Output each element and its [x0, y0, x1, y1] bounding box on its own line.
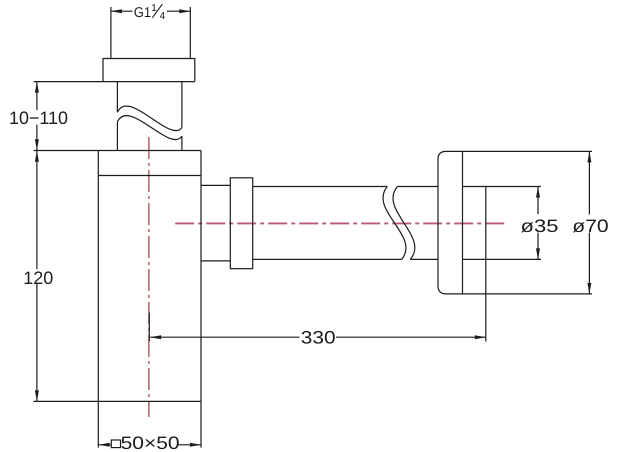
dimension 50x50 extension line left	[97, 401, 99, 447]
trap body top edge + left extension line	[34, 150, 202, 152]
svg-text:ø70: ø70	[572, 216, 608, 236]
svg-text:120: 120	[23, 268, 53, 288]
arrow 50x50 right	[190, 443, 201, 447]
square symbol of 50x50 label	[111, 440, 120, 448]
dimension 120 line (vertical, broken for text)	[36, 151, 38, 402]
upper tailpiece tube right wall (above break)	[181, 82, 183, 128]
tube break curve lower	[117, 116, 181, 140]
arrow 10-110 top	[35, 82, 39, 93]
horizontal centerline of outlet pipe	[175, 222, 504, 224]
svg-text:4: 4	[160, 11, 166, 22]
arrow dia35 top	[536, 187, 540, 198]
wall escutcheon flange right edge	[462, 151, 464, 294]
svg-text:330: 330	[301, 328, 336, 348]
dimension 50x50 extension line right	[200, 401, 202, 447]
trap body right wall	[200, 151, 202, 402]
dimension dia70 line (broken for text)	[588, 151, 590, 294]
top flange (inlet nut)	[103, 59, 195, 82]
arrow 120 bottom	[35, 390, 39, 401]
pipe break curve left	[383, 187, 406, 260]
svg-text:50×50: 50×50	[121, 433, 180, 452]
svg-text:ø35: ø35	[521, 216, 559, 236]
horizontal pipe top wall (broken at wave)	[253, 186, 438, 188]
dimension 330 line (broken for text)	[150, 336, 486, 338]
arrow 330 right	[475, 335, 486, 339]
vertical centerline of trap body	[148, 137, 150, 417]
dimension 330 extension stub at centerline	[148, 313, 150, 342]
dimension G1 1/4 dimension line	[111, 10, 190, 12]
upper tailpiece tube left wall (above break)	[116, 82, 118, 113]
arrow G1 1/4 right	[179, 9, 190, 13]
outlet stub upper wall	[201, 184, 230, 186]
arrow G1 1/4 left	[111, 9, 122, 13]
trap body left wall	[97, 151, 99, 402]
dia35 top extension line	[463, 186, 542, 188]
svg-text:10−110: 10−110	[9, 108, 68, 128]
svg-text:G1: G1	[134, 5, 151, 21]
flange top edge + dia70 top extension line	[446, 150, 592, 152]
compression nut on outlet	[230, 178, 252, 269]
dimension G1 1/4 extension line left	[110, 7, 112, 59]
tube break curve upper	[117, 106, 181, 131]
arrow dia70 top	[587, 151, 591, 162]
dimension 10-110 line (vertical, broken for text)	[36, 82, 38, 151]
arrow 10-110 bottom	[35, 139, 39, 150]
wall escutcheon flange rounded left side	[438, 151, 446, 294]
dimension 330 extension line right	[485, 187, 487, 342]
flange bottom edge + dia70 bottom extension line	[446, 293, 592, 295]
dimension G1 1/4 extension line right	[189, 7, 191, 59]
flange bottom edge + 10-110 top extension line	[34, 81, 195, 83]
dimension dia35 line (broken for text)	[537, 187, 539, 260]
outlet stub lower wall	[201, 260, 230, 262]
lower tailpiece tube right wall (below break)	[181, 136, 183, 150]
arrow dia35 bottom	[536, 248, 540, 259]
arrow 330 left	[150, 335, 161, 339]
arrow 50x50 left	[99, 443, 110, 447]
arrow dia70 bottom	[587, 283, 591, 294]
trap body bottom edge + left extension line	[34, 400, 202, 402]
pipe break curve right	[393, 187, 415, 260]
dia35 bottom extension line	[463, 258, 542, 260]
lower tailpiece tube left wall (below break)	[116, 122, 118, 151]
centerlines (red dash-dot)	[149, 137, 504, 417]
dimension 50x50 dimension line (broken for text)	[99, 444, 201, 446]
horizontal pipe bottom wall (broken at wave)	[253, 258, 438, 260]
trap body cap joint line	[98, 175, 201, 177]
arrow 120 top	[35, 151, 39, 162]
